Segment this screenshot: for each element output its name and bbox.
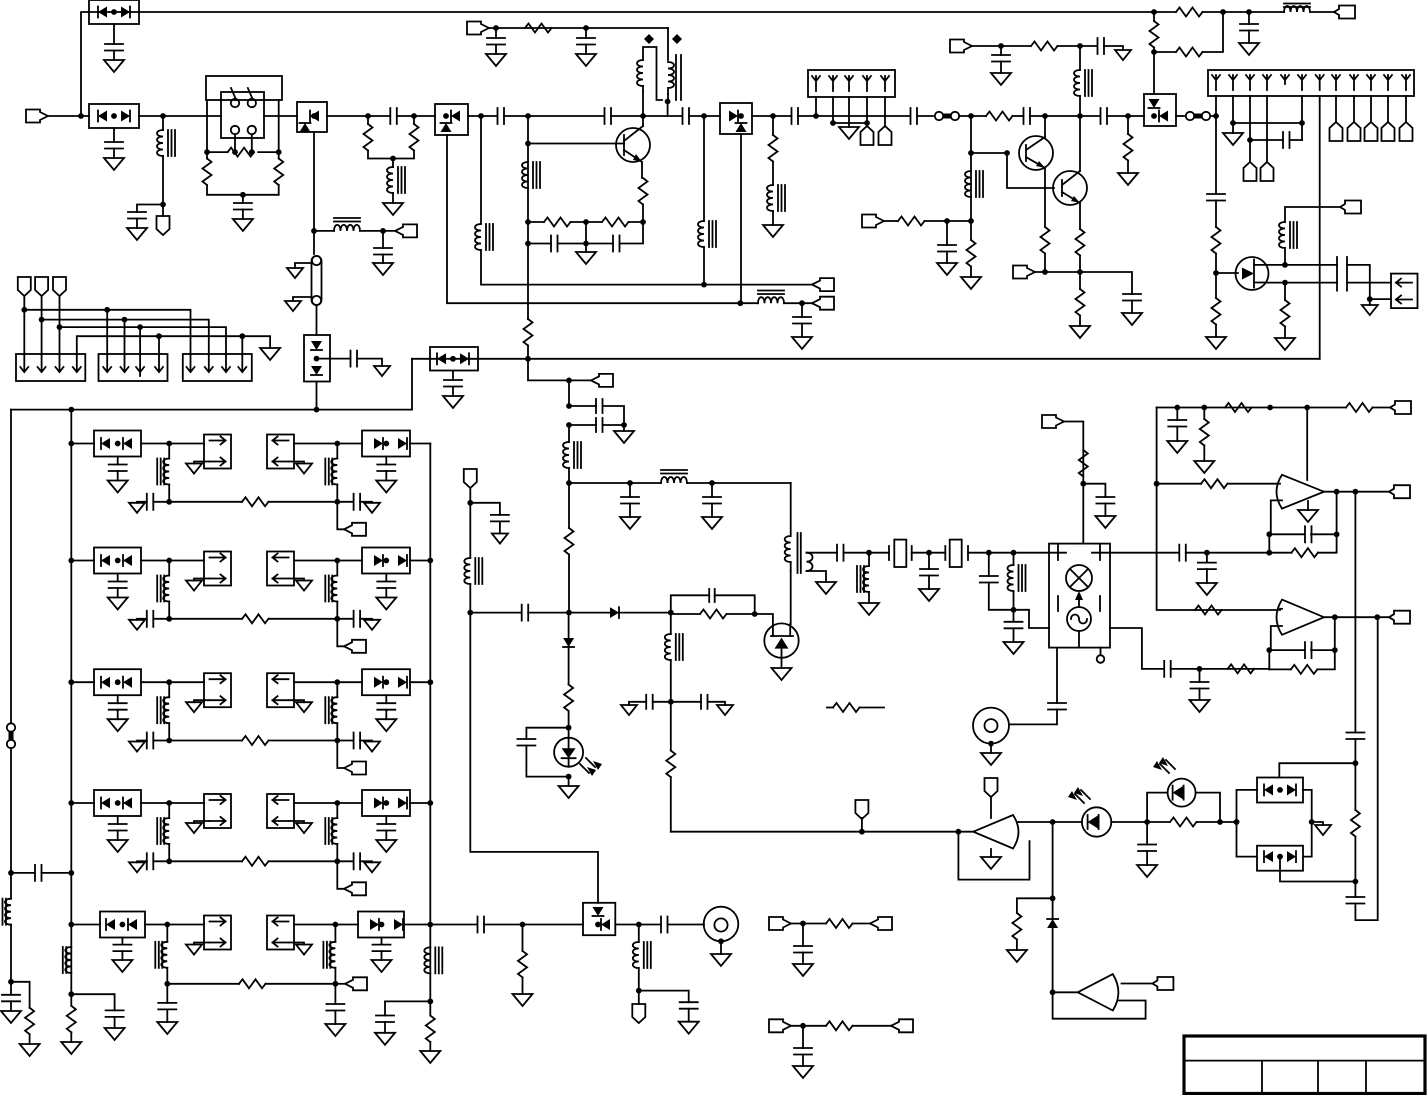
LED D11 arrows bbox=[1075, 790, 1090, 803]
phone jack J3 bbox=[704, 907, 739, 942]
inductor L20 bbox=[424, 947, 442, 973]
wire bottom rail bbox=[207, 185, 279, 195]
U4 output bbox=[1017, 821, 1019, 823]
capacitor bbox=[639, 991, 689, 1003]
bias node vertical bbox=[970, 116, 972, 221]
ground below U4 bbox=[990, 849, 992, 857]
detector branch terminal bbox=[464, 469, 477, 488]
left feed vertical bbox=[10, 410, 12, 723]
capacitor to ground arrow bbox=[337, 860, 353, 862]
ground bbox=[61, 1042, 81, 1054]
ground bbox=[486, 54, 506, 66]
ground bbox=[1206, 337, 1226, 349]
zener pair box D4 bbox=[316, 305, 318, 335]
capacitor bbox=[1098, 38, 1105, 54]
meter cap branch bbox=[526, 728, 568, 739]
top bus wire bbox=[81, 12, 1154, 116]
feedback cap U3 bbox=[1266, 647, 1272, 653]
wire bbox=[139, 115, 221, 117]
op-amp U2 output bbox=[1324, 491, 1389, 493]
ground bbox=[121, 951, 123, 960]
capacitor to ground arrow bbox=[153, 740, 169, 742]
LED D11 bbox=[1082, 807, 1111, 836]
right row bus bbox=[429, 444, 431, 1016]
resistor R16 bbox=[1150, 21, 1159, 48]
capacitor bbox=[1176, 408, 1178, 421]
transformer T1 bbox=[643, 28, 668, 116]
antenna connector box A1 bbox=[808, 70, 895, 97]
capacitor series bbox=[661, 917, 668, 933]
wire bbox=[468, 115, 497, 117]
ground bbox=[946, 252, 948, 264]
resistor R3 bbox=[274, 159, 283, 186]
capacitor bbox=[801, 303, 803, 317]
capacitor bbox=[71, 994, 114, 1010]
resistor R35 bbox=[826, 919, 853, 928]
coupling cap bbox=[11, 872, 35, 874]
ground bbox=[1004, 642, 1024, 654]
capacitor C2 bbox=[113, 128, 115, 142]
ground bbox=[620, 517, 640, 529]
wire bbox=[48, 115, 89, 117]
inductor L2 bbox=[314, 230, 334, 232]
capacitor C10 series bbox=[683, 108, 690, 124]
resistor R37 bbox=[11, 982, 30, 1008]
diode pair D2 box bbox=[89, 104, 139, 128]
ground bbox=[452, 387, 454, 397]
op-amp U3 bbox=[1277, 600, 1325, 635]
speaker box arrows bbox=[1391, 274, 1418, 309]
terminal bbox=[335, 983, 345, 985]
LED D12 bbox=[1147, 793, 1167, 822]
capacitor bbox=[166, 984, 168, 1003]
capacitor C4 bbox=[242, 195, 244, 203]
wire bbox=[264, 115, 368, 117]
feedback res U3 bbox=[1269, 668, 1291, 670]
transistor Q1 base line bbox=[527, 116, 529, 319]
diode pair box D9 bbox=[1257, 778, 1303, 803]
ground arrow bbox=[194, 462, 210, 464]
pin header bbox=[1244, 162, 1257, 181]
resistor R28 bbox=[1228, 664, 1255, 673]
filter row wire bbox=[71, 802, 94, 804]
capacitor bbox=[585, 28, 587, 38]
inductor L13 bbox=[661, 477, 687, 483]
resistor R32 bbox=[568, 647, 570, 685]
link box out bbox=[204, 673, 231, 707]
capacitor bbox=[1146, 822, 1148, 845]
wire bbox=[791, 1025, 826, 1027]
ground bbox=[981, 753, 1001, 765]
resistor R8 bbox=[772, 116, 774, 135]
node vertical from D3 bbox=[313, 132, 315, 254]
terminal bias bbox=[1013, 266, 1035, 279]
inductor bbox=[168, 803, 170, 818]
capacitor to ground arrow bbox=[337, 501, 353, 503]
wire bbox=[410, 681, 430, 683]
capacitor C6 bbox=[317, 358, 351, 360]
resistor R7 bbox=[525, 24, 552, 33]
capacitor bbox=[117, 457, 119, 465]
inductor L4 bbox=[480, 116, 482, 224]
wire bbox=[294, 443, 362, 445]
ground arrow left 2 bbox=[293, 297, 312, 301]
capacitor bbox=[385, 695, 387, 703]
audio out of mixer bbox=[1110, 628, 1164, 669]
capacitor series bbox=[1024, 108, 1031, 124]
capacitor bbox=[117, 695, 119, 703]
ground bbox=[513, 994, 533, 1006]
wire bbox=[410, 560, 430, 562]
wire IF out bbox=[569, 482, 661, 484]
IF strip node x528 down bbox=[527, 318, 529, 320]
ground arrow left 1 bbox=[295, 263, 312, 268]
ground bbox=[679, 1022, 699, 1034]
wire base Q2 bbox=[971, 153, 1054, 188]
relay contacts bbox=[231, 99, 239, 107]
ground bbox=[420, 1051, 440, 1063]
inductor L12 bbox=[568, 425, 570, 442]
ground bbox=[375, 1033, 395, 1045]
resistor R26 bbox=[568, 483, 570, 528]
ground bbox=[1, 1011, 21, 1023]
capacitor bbox=[121, 938, 123, 945]
inductor L17 bbox=[638, 925, 640, 943]
resistor R29 bbox=[1351, 810, 1360, 837]
connector pins bbox=[816, 97, 885, 126]
ground arrow bbox=[289, 821, 305, 823]
inductor L16 bbox=[670, 613, 672, 634]
inductor bbox=[168, 682, 170, 697]
resistor R15 bbox=[1127, 116, 1129, 134]
ground arrow bbox=[1369, 299, 1371, 305]
terminal bbox=[337, 741, 344, 769]
node vertical from D6 bbox=[740, 134, 742, 303]
ground bbox=[816, 582, 836, 594]
wire bbox=[1237, 790, 1356, 882]
inductor L3 bbox=[392, 159, 394, 168]
terminal bbox=[1042, 415, 1064, 428]
LED D15 bbox=[554, 738, 583, 767]
diode pair box bbox=[362, 548, 410, 574]
feedback cap U2 bbox=[1266, 531, 1272, 537]
diode D16 bbox=[1052, 898, 1054, 919]
U4 feedback loop bbox=[958, 832, 1029, 880]
terminal above U4 bbox=[985, 778, 998, 797]
resistor R23 bbox=[1203, 408, 1205, 420]
pin 2 gnd bus bbox=[1233, 96, 1302, 140]
polarity diamonds bbox=[644, 34, 682, 44]
jumper switch vertical bbox=[7, 723, 15, 731]
capacitor series vertical bbox=[1048, 703, 1066, 710]
long wire y359 bbox=[412, 358, 1320, 360]
oscillator line terminal bbox=[467, 22, 489, 35]
test point stub bbox=[1100, 648, 1102, 655]
diode pair box bbox=[94, 548, 141, 574]
capacitor bbox=[1248, 12, 1250, 24]
wire bbox=[404, 924, 477, 926]
terminal bbox=[891, 1019, 913, 1032]
transformer T2 bbox=[790, 483, 792, 536]
capacitor to ground arrow bbox=[153, 618, 169, 620]
row 5 wire bbox=[71, 924, 100, 926]
resistor R1 bbox=[228, 148, 255, 157]
terminal bbox=[1389, 485, 1410, 498]
link box out bbox=[204, 435, 231, 469]
wire bbox=[1370, 298, 1391, 300]
ground bbox=[105, 1028, 125, 1040]
ground bbox=[919, 589, 939, 601]
main af wire bbox=[1110, 552, 1179, 554]
ground bbox=[1223, 133, 1243, 145]
wire osc top bbox=[489, 27, 668, 29]
distribution lines bbox=[24, 296, 59, 355]
floating resistor bbox=[827, 707, 833, 709]
op-amp U2 bbox=[1277, 475, 1325, 509]
aux RC output 2 bbox=[769, 1019, 791, 1032]
capacitor bbox=[334, 984, 336, 1004]
capacitor series bbox=[792, 108, 799, 124]
ground bbox=[113, 51, 115, 61]
capacitor bbox=[470, 503, 500, 515]
link box in bbox=[267, 435, 294, 469]
wire bbox=[141, 681, 204, 683]
ground bbox=[242, 210, 244, 220]
ground bbox=[576, 54, 596, 66]
wire bbox=[752, 115, 791, 117]
ground bbox=[1007, 950, 1027, 962]
link box in bbox=[267, 552, 294, 586]
inductor L18 bbox=[10, 873, 12, 899]
ground bbox=[385, 831, 387, 841]
link box in bbox=[267, 916, 294, 950]
ground bbox=[1197, 583, 1217, 595]
diode pair box bbox=[94, 790, 141, 816]
meter driver vertical bbox=[1052, 822, 1054, 898]
jumper W2 bbox=[1176, 115, 1184, 117]
ground bbox=[793, 964, 813, 976]
ground bbox=[382, 255, 384, 264]
terminal bbox=[861, 818, 863, 832]
ground bbox=[385, 471, 387, 481]
capacitor bbox=[802, 924, 804, 947]
diode/zener box D3 bbox=[297, 102, 327, 132]
right output verticals bbox=[1354, 492, 1356, 733]
inductor L21 bbox=[469, 503, 471, 558]
ground bbox=[166, 1009, 168, 1022]
capacitor bbox=[988, 553, 990, 576]
pin header P1 bbox=[861, 126, 874, 145]
terminal bbox=[812, 278, 834, 291]
diode/zener box D6 bbox=[720, 103, 752, 134]
capacitor bbox=[381, 938, 383, 945]
LED chain wire bbox=[1018, 821, 1082, 823]
capacitor C1 bbox=[113, 24, 115, 44]
inductor L14 bbox=[868, 553, 870, 566]
capacitor bbox=[385, 574, 387, 582]
wire long net to row bus bbox=[11, 359, 412, 410]
ground bbox=[385, 588, 387, 598]
diode D14 bbox=[563, 638, 574, 647]
resistor R21 bbox=[1225, 403, 1252, 412]
op-amp U5 bbox=[1078, 974, 1119, 1010]
resistor R40 bbox=[522, 925, 524, 951]
inductor L10 bbox=[1079, 46, 1081, 70]
ground bbox=[1307, 501, 1309, 510]
capacitor C3 bbox=[137, 205, 163, 213]
ground bbox=[568, 777, 570, 786]
pin 1 chain bbox=[1215, 96, 1217, 194]
capacitor bbox=[385, 457, 387, 465]
resistor bbox=[167, 983, 239, 985]
capacitor series bbox=[1164, 661, 1171, 677]
ground bbox=[1194, 461, 1214, 473]
wire bbox=[294, 560, 362, 562]
resistor bbox=[169, 860, 242, 862]
ground bbox=[711, 954, 731, 966]
connector block B1 bbox=[16, 354, 85, 381]
diode/zener box D17 bbox=[583, 903, 615, 935]
resistor R2 bbox=[203, 159, 212, 186]
capacitor C8 series bbox=[498, 108, 505, 124]
capacitor series bbox=[837, 545, 844, 561]
LED D15 arrows bbox=[580, 758, 595, 773]
osc terminal bbox=[1340, 201, 1361, 214]
terminal bbox=[337, 502, 344, 530]
diode pair box D8 bbox=[430, 347, 478, 371]
capacitor bbox=[452, 371, 454, 381]
capacitor to ground arrow bbox=[337, 618, 353, 620]
terminal bbox=[591, 374, 613, 387]
inductor L1 bbox=[162, 116, 164, 130]
ground bbox=[1070, 326, 1090, 338]
diode pair box bbox=[100, 912, 145, 938]
capacitor bbox=[1013, 610, 1015, 622]
capacitor to ground arrow bbox=[153, 860, 169, 862]
inductor bbox=[336, 682, 338, 697]
left row bus bbox=[70, 410, 72, 995]
diode pair box bbox=[94, 431, 141, 457]
capacitor bbox=[629, 483, 631, 497]
resistor bbox=[169, 501, 242, 503]
terminal bbox=[638, 991, 640, 1004]
ground bbox=[136, 219, 138, 229]
limiter net wire bbox=[1279, 763, 1355, 777]
crystal X1 bbox=[889, 546, 912, 560]
wire bbox=[294, 802, 362, 804]
resistor R5 bbox=[410, 124, 419, 151]
feedback rows caps bbox=[528, 222, 643, 244]
ground bbox=[623, 425, 625, 431]
ground bbox=[334, 1011, 336, 1025]
cap right with ground arrow bbox=[671, 701, 701, 703]
transistor Q2 bbox=[1019, 136, 1053, 170]
ground bbox=[991, 73, 1011, 85]
ground bbox=[848, 123, 850, 127]
ground bbox=[772, 668, 792, 680]
terminal bbox=[1389, 611, 1410, 624]
ground bbox=[859, 603, 879, 615]
resistor R22 bbox=[1346, 403, 1373, 412]
ground arrow bbox=[1115, 50, 1131, 60]
resistor R25 bbox=[1195, 606, 1222, 615]
capacitor series bbox=[911, 108, 918, 124]
inductor L5 bbox=[522, 162, 528, 188]
ground bbox=[1137, 865, 1157, 877]
wire bbox=[972, 45, 1031, 47]
inductor bbox=[168, 444, 170, 459]
line 1 bbox=[24, 310, 190, 355]
resistor R9 bbox=[986, 112, 1013, 121]
capacitor bbox=[495, 28, 497, 38]
filter row wire bbox=[71, 560, 94, 562]
op-amp U3 output bbox=[1324, 616, 1389, 618]
af bus wire bbox=[671, 831, 974, 833]
ground arrow bbox=[492, 534, 508, 544]
ground arrow bbox=[289, 462, 305, 464]
diode pair box D10 bbox=[1257, 846, 1303, 871]
capacitor bbox=[946, 221, 948, 245]
ground bbox=[763, 225, 783, 237]
ground bbox=[117, 831, 119, 841]
filter row wire bbox=[71, 681, 94, 683]
diode/zener box D7 bbox=[1144, 94, 1176, 126]
wire bbox=[141, 560, 204, 562]
capacitor series bbox=[478, 917, 485, 933]
capacitor bbox=[711, 483, 713, 497]
main connector box J2 bbox=[1208, 70, 1414, 96]
mixer injection arrow bbox=[1078, 600, 1080, 607]
inductor bbox=[166, 925, 168, 942]
filter row wire bbox=[71, 443, 94, 445]
ground bbox=[1239, 43, 1259, 55]
wire bbox=[410, 443, 430, 445]
diode D13 bbox=[610, 607, 619, 618]
ground bbox=[585, 244, 587, 253]
ground arrow bbox=[374, 366, 390, 376]
resistor R11 bbox=[1076, 229, 1085, 256]
line 3 bbox=[60, 327, 227, 355]
inductor L7 bbox=[772, 162, 774, 186]
title block bbox=[1184, 1036, 1425, 1094]
resistor bbox=[169, 618, 242, 620]
pin header P2 bbox=[879, 126, 892, 145]
RC to detector fet bbox=[671, 595, 755, 614]
resistor bbox=[169, 740, 242, 742]
capacitor big A bbox=[1285, 264, 1337, 266]
terminal bbox=[812, 297, 834, 310]
resistor R17 bbox=[1154, 12, 1223, 52]
diode/zener box D5 bbox=[414, 115, 435, 117]
op-amp U4 audio bbox=[973, 815, 1018, 849]
terminal TP1 bbox=[162, 205, 164, 217]
feedback res U2 bbox=[1269, 552, 1291, 554]
wires relay to resistor network bbox=[207, 100, 279, 159]
terminal AGC in bbox=[862, 215, 884, 228]
wire bbox=[410, 802, 430, 804]
resistor R20 bbox=[1284, 283, 1286, 300]
line 4 bbox=[77, 336, 270, 355]
agc feed wire bbox=[470, 613, 598, 903]
link box in bbox=[267, 673, 294, 707]
pin 4 header bbox=[1266, 96, 1268, 162]
capacitor to ground arrow bbox=[153, 501, 169, 503]
terminal bbox=[395, 224, 417, 237]
fuse F1 bbox=[312, 256, 322, 305]
ground arrow bbox=[194, 821, 210, 823]
ground bbox=[961, 277, 981, 289]
capacitor bbox=[10, 982, 12, 995]
